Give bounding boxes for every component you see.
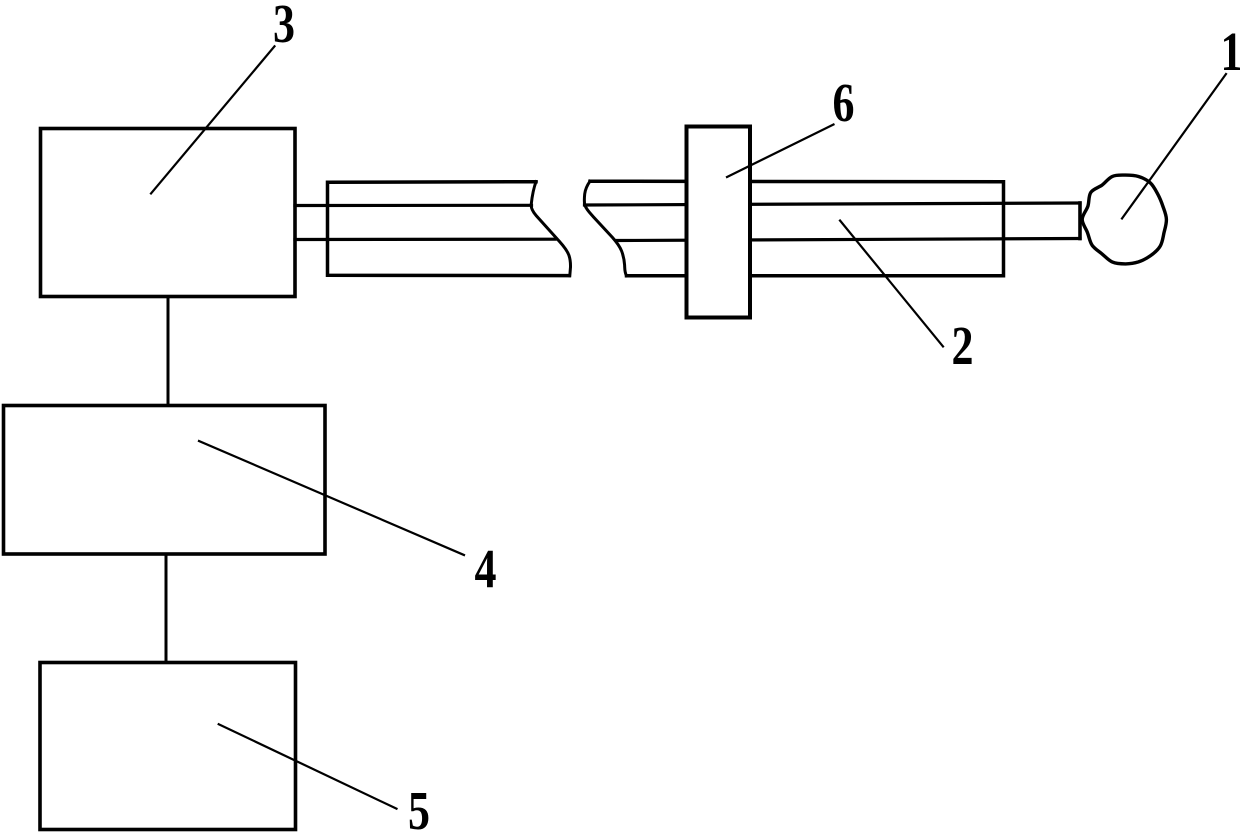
rod 2 end cap (1078, 203, 1082, 239)
svg-text:3: 3 (273, 0, 295, 54)
rod 2 upper line right section (585, 203, 1081, 205)
break squiggle left section (531, 182, 570, 276)
rod 2 lower line left section (295, 238, 555, 242)
tube right section outline (590, 181, 1004, 276)
wire connector box3-box4 (167, 297, 170, 406)
wire connector box4-box5 (165, 554, 168, 663)
collar 6 (white-filled rectangle over tube) (687, 127, 751, 318)
leader line 5 (219, 724, 397, 809)
rod 2 upper line left section (295, 204, 532, 207)
leader line 3 (151, 46, 275, 193)
knob 1 (hand-drawn circle) (1082, 175, 1166, 264)
box 4 (4, 406, 326, 555)
leader line 1 (1122, 74, 1226, 219)
svg-text:2: 2 (951, 315, 973, 376)
svg-text:6: 6 (832, 72, 854, 133)
tube left section outline with break edge (328, 182, 570, 276)
svg-text:4: 4 (474, 538, 496, 599)
leader line 4 (199, 441, 464, 555)
box 5 (40, 663, 296, 830)
leader line 2 (840, 221, 943, 347)
box 3 (41, 129, 296, 297)
leader line 6 (727, 125, 834, 178)
break squiggle right section (584, 181, 626, 276)
svg-text:5: 5 (408, 780, 430, 835)
svg-text:1: 1 (1220, 21, 1240, 82)
rod 2 lower line right section (616, 239, 1080, 241)
